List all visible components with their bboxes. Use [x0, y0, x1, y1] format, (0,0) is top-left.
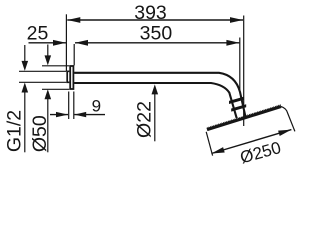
svg-text:393: 393 — [134, 2, 167, 24]
svg-text:9: 9 — [92, 96, 101, 115]
svg-text:25: 25 — [27, 22, 49, 44]
svg-text:Ø22: Ø22 — [133, 101, 155, 138]
svg-text:G1/2: G1/2 — [4, 110, 26, 152]
svg-text:Ø50: Ø50 — [29, 115, 51, 152]
svg-text:350: 350 — [140, 22, 173, 44]
